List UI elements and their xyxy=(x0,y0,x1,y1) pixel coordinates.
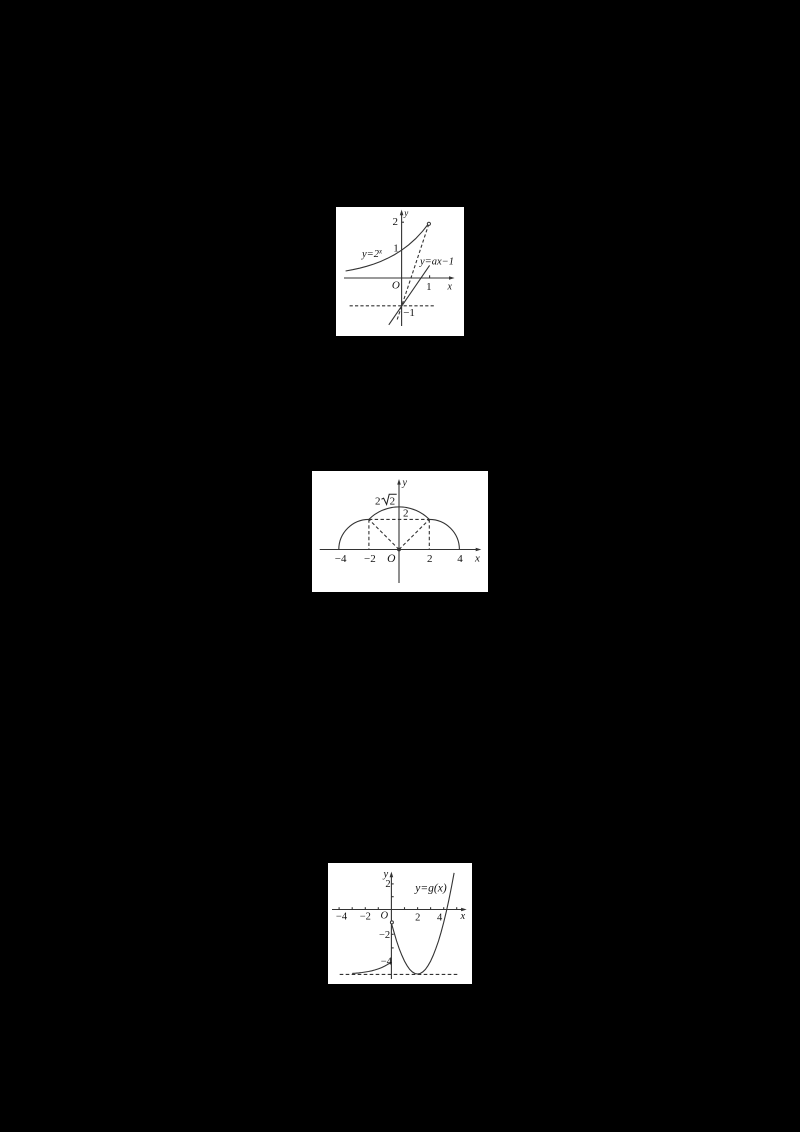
left branch curve xyxy=(352,962,391,973)
x-axis arrowhead xyxy=(449,276,455,280)
curve y=2^x xyxy=(346,222,430,271)
dashed vertical x=2 xyxy=(428,519,430,549)
y-axis xyxy=(401,212,403,326)
x-axis arrowhead xyxy=(476,548,482,552)
dashed horizontal y=2 xyxy=(369,518,429,520)
svg-text:4: 4 xyxy=(437,913,443,924)
figure 1: y=2^x and y=ax-1 graph xyxy=(336,207,464,336)
svg-text:y=2x: y=2x xyxy=(361,248,383,261)
svg-text:2: 2 xyxy=(390,496,396,508)
svg-text:−2: −2 xyxy=(360,912,371,923)
svg-text:1: 1 xyxy=(393,242,399,254)
svg-text:−4: −4 xyxy=(335,553,347,565)
tick y=2 xyxy=(402,221,404,223)
dot at origin xyxy=(397,548,401,552)
svg-text:y: y xyxy=(402,478,408,489)
figure 2: semicircle arcs graph xyxy=(312,471,488,592)
y-axis arrowhead xyxy=(400,210,404,216)
y-axis arrowhead xyxy=(390,872,394,878)
svg-text:O: O xyxy=(387,553,396,565)
figure 3: y=g(x) graph xyxy=(328,863,472,984)
dashed diagonal O to (2,2) xyxy=(399,519,429,549)
dashed asymptote y=-5 xyxy=(340,973,460,975)
x-axis xyxy=(320,549,479,551)
radical sign xyxy=(382,494,397,504)
tick x=1 xyxy=(429,275,431,278)
right quarter arc center (2,0) xyxy=(429,519,459,549)
svg-text:x: x xyxy=(474,553,480,565)
x-axis xyxy=(344,277,453,279)
svg-text:2: 2 xyxy=(427,553,433,565)
open circle at (0,-1) xyxy=(390,921,393,924)
svg-text:2: 2 xyxy=(375,496,381,508)
right branch parabola xyxy=(392,873,455,974)
dashed vertical x=-2 xyxy=(368,519,370,549)
dashed line through (0,-1) and (1,2) xyxy=(397,224,429,320)
x-axis xyxy=(332,909,465,911)
dashed diagonal O to (-2,2) xyxy=(369,519,399,549)
svg-text:4: 4 xyxy=(457,553,463,565)
solid line y=ax-1 xyxy=(389,265,430,324)
y-axis xyxy=(390,874,392,979)
open circle at (1,2) xyxy=(427,222,430,225)
svg-text:O: O xyxy=(381,911,389,922)
svg-text:1: 1 xyxy=(426,281,432,293)
x ticks xyxy=(338,907,340,909)
left quarter arc center (-2,0) xyxy=(339,519,369,549)
svg-text:x: x xyxy=(460,911,466,922)
svg-text:2: 2 xyxy=(403,508,409,520)
y-axis xyxy=(398,482,400,584)
dashed horizontal line y=-1 xyxy=(350,305,436,307)
svg-text:−1: −1 xyxy=(403,307,415,319)
svg-text:−4: −4 xyxy=(381,956,393,967)
svg-text:2: 2 xyxy=(393,216,399,228)
y ticks xyxy=(391,883,393,885)
svg-text:y=g(x): y=g(x) xyxy=(414,883,447,895)
y-axis arrowhead xyxy=(397,479,401,485)
svg-text:2: 2 xyxy=(385,879,390,890)
svg-text:−4: −4 xyxy=(336,912,348,923)
middle arc of circle r=2sqrt2 xyxy=(369,507,429,520)
x-axis arrowhead xyxy=(461,908,467,912)
svg-text:−2: −2 xyxy=(364,553,376,565)
svg-text:y=ax−1: y=ax−1 xyxy=(419,257,454,268)
svg-text:−2: −2 xyxy=(379,930,390,941)
svg-text:2: 2 xyxy=(415,913,420,924)
svg-text:x: x xyxy=(447,282,453,293)
svg-text:y: y xyxy=(403,208,408,218)
svg-text:O: O xyxy=(392,280,400,292)
